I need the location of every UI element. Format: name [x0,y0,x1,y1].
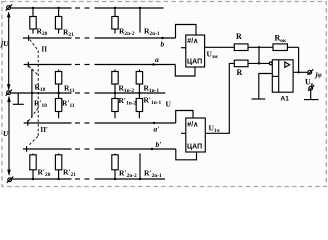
resistor Rок (feedback) [273,44,299,51]
resistor R'1n-2 [112,93,118,118]
junctions on top rail [32,7,141,9]
resistor R1n-2 [112,70,118,94]
switch П contact on bus a [27,62,29,68]
resistor R21 [55,8,61,34]
switch П' contact on bus b' [26,146,28,152]
wire middle rail [11,92,166,94]
junctions on bottom rail [32,178,141,180]
ground (op-amp input) [252,98,266,100]
resistor R20 [30,8,36,34]
output terminal Uв [307,69,313,75]
wire bus a [24,64,176,66]
junction summing node [258,46,260,65]
resistor R10 (wire) [31,69,33,93]
dac U1 (#/Λ ЦАП) [181,35,205,67]
wire bus a to DAC1 bottom [175,65,195,77]
wire bus b' [23,148,176,150]
dimension arrow jU [7,11,11,90]
input terminal U (bottom) [7,177,14,183]
switch П contact on bus b [28,35,30,41]
svg-text:A1: A1 [281,96,290,103]
svg-text:ЦАП: ЦАП [187,59,202,66]
svg-text:jφ: jφ [315,71,322,79]
node a' (dot) [153,122,155,124]
resistor R1n-1 [136,70,142,94]
svg-text:#/∧: #/∧ [187,38,198,45]
wire bottom rail [12,178,165,180]
wire top rail [11,7,164,9]
svg-text:b: b [161,40,165,49]
svg-text:a′: a′ [154,125,160,134]
wire bus b [23,37,176,39]
terminal common (middle) [6,90,13,96]
switch linkage (dashed) [28,40,38,146]
svg-text:R: R [236,32,242,41]
wire DAC1 output Uзм [205,46,235,48]
wire DAC2 output U1ч [205,63,234,133]
wire summing junction [258,47,260,63]
svg-text:U: U [3,129,9,138]
svg-text:R: R [237,68,243,77]
node b (dot) [161,37,163,39]
svg-text:a: a [155,55,159,64]
dimension arrow U [7,96,11,176]
node a (dot) [152,63,154,65]
wire op-amp output [293,71,308,73]
wire bus a' [24,122,176,124]
junctions on middle rail [31,92,141,94]
wire feedback to output [298,47,300,72]
input terminal jU [6,4,13,10]
wire op-amp non-inv input to ground [259,74,273,99]
resistor R (top summing) [234,44,273,51]
resistor R'1n-1 [136,93,142,118]
junction output node [297,71,299,73]
resistor R2n-2 [112,8,118,34]
switch П' contact on bus a' [27,120,29,126]
op-amp A1 [269,60,293,92]
svg-text:#/∧: #/∧ [187,122,198,129]
output terminal (common) [308,85,314,91]
svg-text:jU: jU [0,39,9,48]
resistor R'10 (wire) [31,93,33,118]
resistor R'2n-2 [112,154,118,179]
wire output common to ground [310,90,312,99]
svg-text:ЦАП: ЦАП [187,144,202,151]
node b' (dot) [151,148,153,150]
ground (output) [304,99,319,101]
resistor R11 [55,70,61,94]
resistor R'20 [30,154,36,179]
svg-text:П′: П′ [41,126,48,134]
resistor R2n-1 (wire) [139,8,141,33]
resistor R'21 [55,154,61,179]
svg-text:П: П [42,46,48,54]
resistor R'2n-1 (wire) [139,153,141,179]
resistor R'11 [55,93,61,118]
svg-text:b′: b′ [156,140,162,149]
wire bus b to DAC1 top [176,25,197,39]
ground (middle rail) [13,93,24,104]
wire bus b' to DAC2 bottom [176,149,197,160]
svg-text:U: U [166,100,172,109]
resistor R (bottom summing) [234,60,269,67]
dac U2 (#/Λ ЦАП) [181,118,205,152]
wire bus a' to DAC2 top [176,111,193,124]
